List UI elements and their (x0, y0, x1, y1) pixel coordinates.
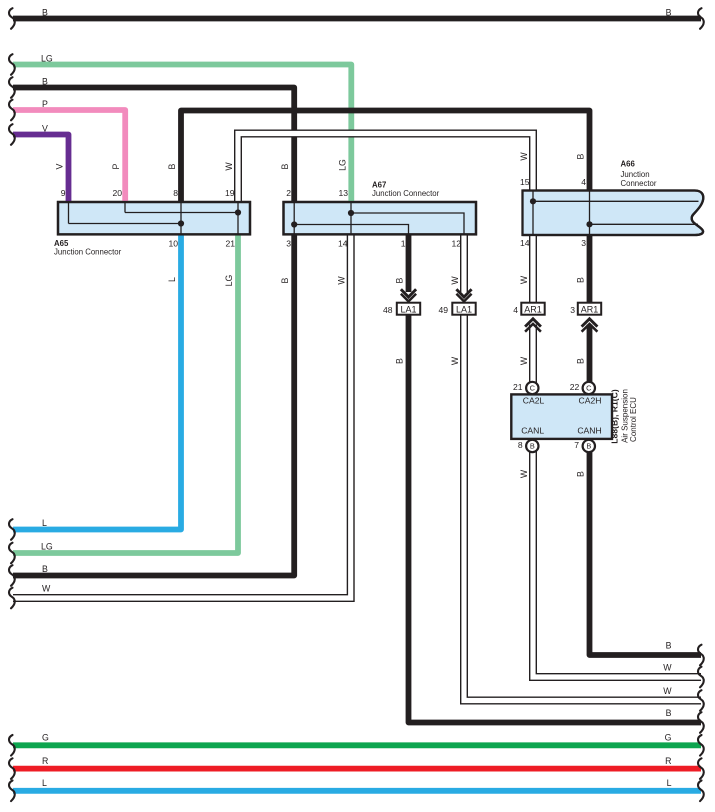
svg-text:B: B (280, 163, 290, 169)
A65 upper bus junction dot (235, 209, 241, 215)
svg-text:CANH: CANH (577, 426, 601, 436)
svg-text:LA1: LA1 (456, 304, 472, 314)
ECU pin 7 connector B circle (583, 440, 595, 452)
svg-text:4: 4 (581, 177, 586, 187)
A67 internal pin 13-14 through line (350, 202, 352, 234)
A66 upper bus junction dot (530, 198, 536, 204)
ECU pin 22 connector C circle (583, 382, 595, 394)
A67 lower bus junction dot (291, 221, 297, 227)
connector border redraw (58, 191, 703, 236)
wire R bottom full width (13, 766, 701, 772)
svg-text:8: 8 (518, 440, 523, 450)
svg-text:W: W (519, 469, 529, 478)
A65 internal pin 9 lead (68, 202, 70, 224)
wire LG from A65 pin 21 (13, 235, 238, 553)
svg-text:LG: LG (224, 274, 234, 286)
A65 internal upper bus (125, 212, 238, 214)
svg-text:3: 3 (581, 238, 586, 248)
svg-text:B: B (42, 77, 48, 87)
wire LG to A67 pin 13 (13, 65, 351, 202)
svg-text:B: B (666, 8, 672, 18)
svg-text:P: P (111, 163, 121, 169)
svg-text:2: 2 (286, 188, 291, 198)
svg-text:B: B (530, 442, 535, 451)
wire L bottom full width (13, 788, 701, 794)
svg-text:L88(B), R1(C): L88(B), R1(C) (610, 389, 620, 444)
svg-text:P: P (42, 99, 48, 109)
svg-text:W: W (519, 152, 529, 161)
break symbol right, B lower wire (698, 712, 704, 733)
A67 internal lower bus to pin 1 (294, 225, 408, 235)
svg-text:3: 3 (286, 239, 291, 249)
svg-text:4: 4 (513, 305, 518, 315)
svg-text:B: B (280, 277, 290, 283)
break symbol right, B top wire (698, 8, 704, 29)
svg-text:AR1: AR1 (581, 304, 599, 314)
connector AR1 4 (521, 303, 544, 315)
svg-text:Connector: Connector (621, 179, 657, 188)
svg-text:W: W (42, 584, 51, 594)
wire B from LA1 48 to bottom right (409, 315, 702, 723)
connector LA1 49 (452, 303, 475, 315)
svg-text:Junction Connector: Junction Connector (54, 247, 122, 256)
break symbol left, B wire (9, 77, 15, 98)
wire P to A65 pin 20 (13, 110, 125, 201)
svg-text:V: V (42, 124, 48, 134)
break symbol left, L wire (9, 519, 15, 540)
break symbol right, L bottom wire (698, 781, 704, 802)
break symbol left, G wire (9, 735, 15, 756)
wire L from A65 pin 10 (13, 235, 181, 529)
svg-text:CA2H: CA2H (579, 396, 602, 406)
svg-text:L: L (42, 778, 47, 788)
wire V to A65 pin 9 (13, 135, 69, 202)
svg-text:W: W (450, 276, 460, 285)
svg-text:R: R (42, 756, 48, 766)
connector AR1 4 arrow (525, 319, 541, 332)
A65 internal pin 19-21 through line (237, 202, 239, 234)
svg-text:B: B (666, 708, 672, 718)
svg-text:20: 20 (112, 188, 122, 198)
svg-text:B: B (576, 153, 586, 159)
svg-text:LG: LG (41, 542, 53, 552)
svg-text:Junction: Junction (621, 170, 650, 179)
svg-text:19: 19 (225, 188, 235, 198)
A66 internal upper bus (533, 200, 699, 202)
svg-text:B: B (666, 641, 672, 651)
svg-text:A67: A67 (372, 180, 386, 189)
break symbol right, W lower wire (698, 690, 704, 711)
wire W from A67 pin 14 (13, 235, 351, 598)
svg-text:B: B (395, 358, 405, 364)
svg-text:B: B (395, 277, 405, 283)
svg-text:B: B (576, 277, 586, 283)
connector AR1 3 arrow (582, 319, 598, 332)
break symbol right, B wire (698, 645, 704, 666)
svg-text:14: 14 (338, 239, 348, 249)
wire W from A66 pin 14 to AR1 4 (529, 234, 537, 304)
A65 lower bus junction dot (178, 220, 184, 226)
svg-text:Junction Connector: Junction Connector (372, 189, 440, 198)
svg-text:W: W (224, 162, 234, 171)
svg-text:Control ECU: Control ECU (629, 397, 638, 442)
A65 internal pin 20 lead (124, 202, 126, 213)
svg-text:W: W (450, 356, 460, 365)
svg-text:15: 15 (520, 177, 530, 187)
connector LA1 48 (397, 303, 420, 315)
svg-text:W: W (663, 663, 672, 673)
wire W from A67 pin 12 to LA1 49 (460, 235, 468, 292)
A67 internal pin 2-3 through line (293, 202, 295, 234)
connector LA1 49 arrow (456, 289, 471, 301)
connector AR1 3 (578, 303, 601, 315)
wire B from AR1 3 to ECU pin 22 (587, 325, 593, 389)
svg-text:8: 8 (173, 188, 178, 198)
wire B top full width (13, 16, 701, 22)
wire B to A67 pin 2 (13, 88, 294, 202)
svg-text:L: L (667, 778, 672, 788)
svg-text:7: 7 (574, 440, 579, 450)
break symbol right, G wire (698, 735, 704, 756)
wire B from A66 pin 3 to AR1 3 (587, 234, 593, 304)
svg-text:W: W (663, 686, 672, 696)
wire W from A65 pin 19 to A66 pin 15 (238, 134, 533, 202)
svg-text:CA2L: CA2L (523, 396, 545, 406)
svg-text:10: 10 (168, 239, 178, 249)
wire B from A65 pin 8 to A66 pin 4 (181, 111, 590, 202)
svg-text:B: B (576, 358, 586, 364)
wire W from LA1 49 to bottom right (464, 315, 701, 701)
svg-text:R: R (665, 756, 671, 766)
ECU L88(B) R1(C) air suspension control box (511, 394, 612, 439)
svg-text:B: B (576, 471, 586, 477)
break symbol left, V wire (9, 124, 15, 145)
svg-text:B: B (42, 564, 48, 574)
svg-text:W: W (519, 275, 529, 284)
wire W from ECU pin 8 to bottom right (533, 446, 701, 677)
break symbol right, W wire (698, 667, 704, 688)
svg-text:1: 1 (401, 239, 406, 249)
svg-text:L: L (42, 518, 47, 528)
break symbol left, LG wire (9, 54, 15, 75)
break symbol left, W lower wire (9, 588, 15, 609)
svg-text:C: C (530, 384, 536, 393)
break symbol left, LG lower wire (9, 543, 15, 564)
wire B from A67 pin 1 to LA1 48 (406, 235, 412, 292)
junction connector A65 body (58, 202, 250, 234)
A66 lower bus junction dot (586, 221, 592, 227)
svg-text:9: 9 (61, 188, 66, 198)
wire B from ECU pin 7 to bottom right (590, 446, 702, 655)
svg-text:13: 13 (338, 188, 348, 198)
break symbol left, P wire (9, 100, 15, 121)
svg-text:V: V (55, 163, 65, 169)
break symbol right, R wire (698, 758, 704, 779)
A66 internal pin 15-14 through line (532, 191, 534, 236)
svg-text:B: B (586, 442, 591, 451)
svg-text:21: 21 (225, 239, 235, 249)
svg-text:AR1: AR1 (524, 304, 542, 314)
svg-text:CANL: CANL (521, 426, 544, 436)
svg-text:C: C (586, 384, 592, 393)
ECU pin 21 connector C circle (526, 382, 538, 394)
connector LA1 48 arrow (401, 289, 416, 301)
A66 internal lower bus (590, 223, 699, 225)
junction connector A66 body (torn right edge) (523, 191, 704, 236)
svg-text:W: W (519, 356, 529, 365)
svg-text:22: 22 (570, 382, 580, 392)
ECU pin 8 connector B circle (526, 440, 538, 452)
svg-text:A66: A66 (621, 160, 636, 169)
svg-text:B: B (167, 163, 177, 169)
break symbol left, B lower wire (9, 565, 15, 586)
wire G bottom full width (13, 742, 701, 748)
svg-text:12: 12 (451, 239, 461, 249)
svg-text:G: G (665, 733, 672, 743)
svg-text:LG: LG (337, 159, 347, 171)
wire B from A67 pin 3 (13, 235, 294, 575)
A65 internal lower bus (69, 223, 182, 225)
junction connector A67 body (284, 202, 477, 234)
break symbol left, R wire (9, 758, 15, 779)
svg-text:LA1: LA1 (400, 304, 416, 314)
break symbol left, L bottom wire (9, 781, 15, 802)
svg-text:LG: LG (41, 54, 53, 64)
A67 upper bus junction dot (348, 210, 354, 216)
break symbol left, B top wire (9, 8, 15, 29)
wire W from AR1 4 to ECU pin 21 (529, 325, 537, 389)
svg-text:L: L (167, 277, 177, 282)
A66 internal pin 4-3 through line (589, 191, 591, 236)
svg-text:14: 14 (520, 238, 530, 248)
A67 internal upper bus to pin 12 (351, 213, 464, 234)
svg-text:G: G (42, 733, 49, 743)
A65 internal pin 8-10 through line (180, 202, 182, 234)
svg-text:W: W (337, 276, 347, 285)
svg-text:B: B (42, 8, 48, 18)
svg-text:48: 48 (383, 305, 393, 315)
svg-text:3: 3 (570, 305, 575, 315)
svg-text:21: 21 (513, 382, 523, 392)
svg-text:49: 49 (438, 305, 448, 315)
